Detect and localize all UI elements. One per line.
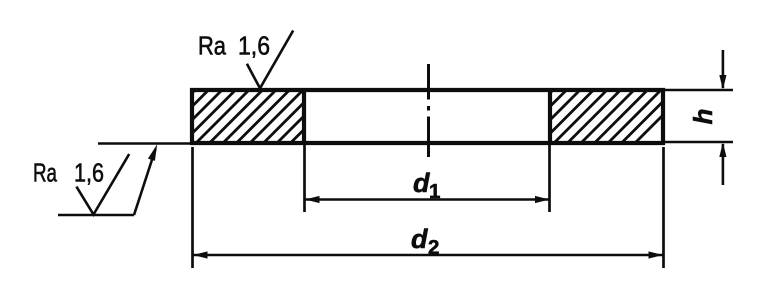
d1 left arrowhead [305,196,320,203]
leader [134,149,156,215]
roughness mark left (check with leader arrow to bottom face) [58,149,156,215]
svg-text:2: 2 [428,236,439,259]
h dimension line lower [722,144,725,185]
svg-text:d: d [413,168,430,198]
hatching left section [130,55,392,155]
washer right edge [661,88,665,145]
washer top edge [190,88,665,92]
h dimension line upper [722,50,725,88]
roughness mark top (check on washer top face) [247,31,293,89]
svg-text:Ra: Ra [198,31,226,61]
svg-text:h: h [688,109,718,125]
top-right extension line for h [665,89,733,92]
h upper arrowhead [719,75,726,90]
bottom surface line left extension [98,142,190,145]
h lower arrowhead [719,143,726,158]
d1 extension line right [548,145,551,212]
bottom-right extension line for h [665,141,733,144]
d2 dimension line [193,254,663,256]
d2 right arrowhead [649,251,664,258]
washer left edge [190,88,194,145]
svg-text:1,6: 1,6 [74,158,104,188]
d2 extension line right [662,147,665,268]
d1 right arrowhead [535,196,550,203]
hole left edge [302,88,306,145]
baseline [58,214,134,217]
svg-text:d: d [411,224,428,254]
d2 extension line left [191,147,194,268]
svg-text:Ra: Ra [33,158,57,188]
leader arrowhead [148,144,157,161]
svg-text:1,6: 1,6 [238,31,270,61]
d1 dimension line [305,198,550,200]
washer bottom edge [190,141,665,145]
d2 left arrowhead [193,251,208,258]
hole right edge [548,88,552,145]
centerline [427,64,430,157]
d1 extension line left [303,145,306,212]
check [76,154,129,215]
hatching right section [488,55,723,155]
svg-text:1: 1 [429,180,440,203]
